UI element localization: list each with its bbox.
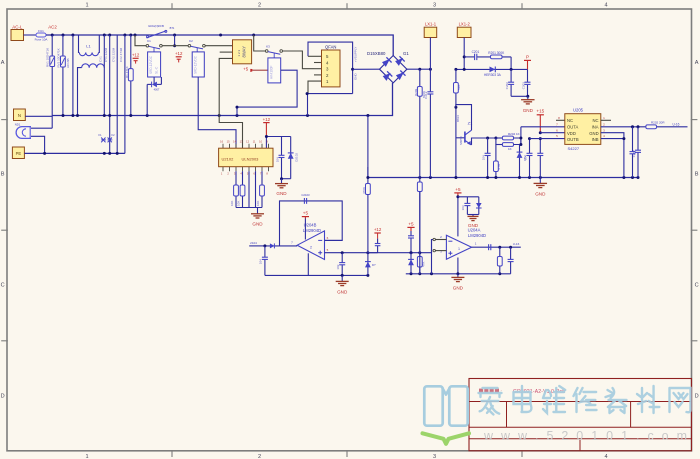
svg-text:D: D	[1, 394, 5, 400]
U2102 pin stubs	[223, 144, 269, 172]
capacitor C201	[464, 50, 479, 60]
resistor R202 label	[651, 120, 665, 124]
junctions INA nodes	[631, 125, 640, 128]
title block document label	[479, 389, 502, 394]
svg-text:A: A	[1, 60, 5, 66]
junctions PE bus	[43, 152, 119, 155]
title block file name	[513, 389, 565, 395]
wire U204B bottom wire	[265, 274, 368, 276]
svg-text:HER303 3A: HER303 3A	[484, 73, 502, 77]
wire U204A V+ rail	[457, 197, 459, 237]
junction contact row node	[173, 44, 176, 47]
svg-text:S4227: S4227	[568, 146, 580, 151]
U205 pin numbers left	[556, 116, 560, 138]
svg-text:2: 2	[258, 2, 261, 8]
IC U205 part number	[568, 146, 580, 151]
title block	[469, 379, 692, 451]
wire U204B feedback loop	[280, 201, 343, 246]
svg-text:w w w . 5 2 0 1 0 1 . c o m: w w w . 5 2 0 1 0 1 . c o m	[483, 429, 689, 443]
svg-text:AC2: AC2	[48, 25, 57, 30]
diode D203	[476, 197, 482, 215]
capacitor CX2 line	[104, 35, 110, 153]
wire sense divider drop	[367, 116, 369, 178]
wire U205 INA wire	[601, 126, 646, 128]
svg-text:BT1: BT1	[170, 26, 175, 30]
transistor Z1 S8550	[456, 121, 473, 146]
wire U205 OUTA wire	[521, 126, 565, 128]
power +5 relay K3	[243, 67, 252, 72]
wire U204A +in stub	[435, 250, 446, 252]
QFAN supply label	[353, 47, 357, 62]
wire QFAN to N bus	[307, 94, 309, 116]
svg-text:ND1: ND1	[15, 123, 21, 127]
svg-text:U204A: U204A	[468, 228, 481, 233]
relay K1 coil	[148, 52, 161, 77]
diode D1 flyback	[147, 77, 161, 92]
wire U205 OUTB wire	[530, 138, 565, 140]
svg-text:104: 104	[259, 259, 263, 264]
junctions N bus	[62, 114, 370, 117]
wire U2102 com node	[265, 137, 267, 149]
svg-text:GND: GND	[523, 108, 534, 113]
wire AC-L to fuse	[24, 34, 37, 36]
svg-text:QFAN: QFAN	[325, 45, 336, 50]
wire vertical L-N link	[72, 35, 74, 116]
wire QFAN pin4 stub	[314, 62, 322, 64]
power +15	[536, 109, 544, 133]
svg-text:1K: 1K	[508, 147, 512, 151]
wire K3 contact out to QFAN	[283, 51, 315, 69]
svg-text:+5: +5	[303, 211, 309, 216]
ground GND near P	[521, 96, 535, 113]
svg-text:AC-L: AC-L	[12, 24, 23, 29]
wire N box to vertical	[25, 115, 52, 117]
svg-text:4007: 4007	[154, 88, 160, 92]
svg-text:OUTB: OUTB	[567, 137, 579, 142]
junctions output nodes	[498, 246, 512, 249]
resistor R207 label	[422, 262, 426, 267]
junction +5 node	[456, 195, 459, 198]
junction clamp node	[265, 135, 268, 138]
junctions R pair right	[519, 137, 522, 147]
svg-text:OUTA: OUTA	[567, 125, 579, 130]
junctions bridge out	[418, 68, 432, 71]
wire label S8050 net	[456, 115, 460, 122]
svg-text:8WAY: 8WAY	[242, 46, 247, 58]
svg-text:B: B	[695, 172, 699, 178]
svg-text:S8050: S8050	[459, 136, 463, 145]
diode D2104 zener	[365, 253, 371, 276]
wire bridge left input	[353, 68, 380, 70]
resistor R202	[646, 125, 688, 129]
svg-text:104: 104	[523, 155, 527, 160]
svg-text:GND: GND	[535, 192, 546, 197]
relay K2 coil	[192, 52, 204, 77]
connector N label	[18, 113, 21, 118]
svg-text:51K: 51K	[457, 85, 461, 90]
varistor RV1	[46, 35, 55, 128]
svg-text:Fuse 10A: Fuse 10A	[35, 38, 48, 42]
svg-text:10K: 10K	[230, 201, 234, 206]
power +12 sense	[374, 227, 382, 238]
ground GND U204B	[336, 275, 349, 294]
diode D2103 small	[270, 243, 275, 248]
wire OUTA drive	[520, 127, 522, 145]
wire U2102 pin wire plain 2	[255, 171, 257, 207]
wire L bus to contact row	[174, 35, 176, 46]
relay K3 contact	[265, 45, 282, 58]
svg-text:PE: PE	[16, 151, 22, 156]
wire Z1 emitter out	[472, 138, 496, 145]
svg-text:+5: +5	[243, 67, 249, 72]
wire U2102 clamp row	[266, 136, 290, 138]
IC U2102 part number	[242, 157, 260, 162]
capacitor CX4 line	[119, 35, 125, 153]
svg-text:C201: C201	[472, 50, 480, 54]
svg-text:+5: +5	[455, 187, 461, 192]
capacitor C212	[424, 69, 433, 177]
wire U205 VDD wire	[540, 132, 565, 134]
wire QFAN bracket bottom	[306, 93, 352, 95]
resistor R205 label	[508, 147, 512, 151]
ground GND U2102 clamp	[275, 179, 288, 196]
svg-text:INA: INA	[592, 125, 599, 130]
svg-text:4.7K: 4.7K	[497, 164, 501, 170]
wire K3 loop to N bus	[236, 107, 238, 115]
svg-text:1: 1	[85, 2, 88, 8]
power +12 U2102	[263, 117, 271, 136]
diode D202 zener	[517, 145, 528, 178]
capacitor C2102	[275, 137, 284, 179]
wire K3 contact feed	[254, 35, 266, 51]
svg-text:2: 2	[310, 246, 312, 250]
watermark text 520101 site name	[479, 386, 691, 414]
svg-text:U205: U205	[573, 108, 584, 113]
wire U204B - input stub	[325, 239, 343, 241]
U205 pin numbers right	[603, 116, 605, 138]
wire U204B V- pin	[307, 253, 309, 275]
svg-text:INB: INB	[592, 137, 599, 142]
connector LX1-2	[457, 21, 471, 37]
svg-text:K1: K1	[147, 39, 151, 43]
U204A pin circles	[433, 238, 435, 252]
wire U2102 pin wire plain 1	[248, 171, 250, 207]
resistor R2105	[366, 167, 371, 195]
wire K3 coil return loop	[237, 70, 297, 107]
svg-text:P: P	[526, 55, 529, 60]
wire sense divider lower	[367, 195, 369, 253]
U2102 pin numbers	[220, 140, 268, 176]
wire U204B output wire	[265, 245, 297, 247]
power +5 U204A	[454, 187, 461, 197]
wire R210 lower	[419, 192, 421, 274]
wire clamp bottom link	[282, 178, 291, 180]
svg-text:SRD-12VDC: SRD-12VDC	[149, 55, 153, 74]
svg-text:104: 104	[481, 155, 485, 160]
svg-text:U2102: U2102	[222, 157, 235, 162]
capacitor C5 +12 polarized	[132, 53, 140, 64]
wire 8WAY pin3 wire	[219, 58, 242, 148]
spark gap FDG1	[98, 133, 106, 142]
svg-text:1: 1	[85, 454, 88, 459]
junctions +input nodes	[341, 251, 422, 254]
wire QFAN pin1 stub	[308, 81, 322, 94]
watermark url	[483, 429, 689, 443]
svg-text:R202 20R: R202 20R	[651, 120, 665, 124]
svg-text:NC: NC	[593, 118, 599, 123]
diode D2104 label	[372, 263, 376, 267]
svg-text:Z1: Z1	[468, 121, 473, 126]
junctions emitter node	[486, 137, 497, 140]
connector PE	[12, 147, 24, 159]
wire 8WAY pin2 stub	[220, 51, 233, 53]
wire U205 INB wire	[601, 138, 624, 140]
svg-text:C202: C202	[505, 82, 509, 90]
breaker BT1	[146, 24, 175, 38]
wire RC gnd link	[467, 214, 478, 216]
junctions L bus	[51, 34, 256, 37]
op-amp U204A LM2904D	[440, 228, 486, 260]
wire U204A bottom bus	[406, 273, 511, 275]
svg-text:D15XB80: D15XB80	[367, 51, 386, 56]
connector PE label	[16, 151, 22, 156]
svg-text:LM2904D: LM2904D	[468, 233, 486, 238]
diode D2102	[288, 137, 299, 179]
svg-text:CX2 474M: CX2 474M	[119, 47, 123, 62]
svg-text:A: A	[695, 60, 699, 66]
svg-text:+12: +12	[263, 117, 271, 122]
wire K2 coil to U2102 pin	[198, 77, 236, 148]
junction INB node	[622, 137, 625, 140]
svg-text:B: B	[1, 172, 5, 178]
svg-text:D: D	[695, 394, 699, 400]
capacitor C210 series	[489, 244, 491, 250]
wire K1 coil return	[146, 84, 148, 115]
svg-text:D?: D?	[372, 263, 376, 267]
svg-text:G1: G1	[403, 51, 409, 56]
QFAN pin numbers	[326, 54, 329, 84]
svg-text:CY2 222M: CY2 222M	[111, 47, 115, 62]
junctions bottom wire nodes	[341, 274, 370, 277]
capacitor C2105	[336, 253, 345, 276]
svg-text:SRD-12VDC: SRD-12VDC	[194, 55, 198, 74]
svg-text:VDD: VDD	[567, 131, 576, 136]
net label out	[513, 242, 520, 246]
watermark book logo	[423, 386, 470, 444]
svg-text:K3: K3	[266, 45, 270, 49]
wire QFAN pin3 stub	[314, 68, 322, 70]
wire U204A output	[472, 246, 521, 248]
wire R pair left link	[496, 138, 503, 145]
resistor R1 bleeder	[125, 35, 133, 116]
svg-text:10K: 10K	[256, 201, 260, 206]
junctions lower bus	[418, 176, 639, 179]
svg-text:102: 102	[336, 264, 340, 269]
resistor R204 label	[508, 132, 520, 136]
svg-text:R201 300K: R201 300K	[488, 51, 505, 55]
svg-text:B816: B816	[456, 115, 460, 122]
svg-text:N: N	[18, 113, 21, 118]
main lower bus	[368, 177, 638, 179]
junction QFAN right	[351, 68, 354, 71]
power P	[524, 55, 531, 70]
junction output node	[263, 244, 266, 247]
junction LX1-2 tap	[463, 55, 466, 58]
IC U2102 designator	[222, 157, 235, 162]
svg-text:RV1 10D471K: RV1 10D471K	[46, 48, 50, 67]
svg-text:+12: +12	[374, 227, 382, 232]
ground GND RC	[468, 215, 479, 228]
wire U204B + input wire	[325, 240, 434, 253]
IC U205	[565, 114, 601, 145]
spark gap FDG2	[107, 133, 115, 142]
wire lamp bottom terminal	[31, 136, 45, 153]
svg-text:U-16: U-16	[513, 242, 520, 246]
capacitor C6 +12 polarized	[175, 51, 183, 62]
connector 8WAY	[233, 40, 252, 64]
resistor R209 label	[414, 88, 426, 98]
junctions diode row	[454, 68, 512, 71]
svg-text:2104: 2104	[250, 241, 257, 245]
svg-text:C: C	[695, 283, 699, 289]
wire LX1-1 to DC bus	[429, 38, 431, 70]
svg-text:R204 1K: R204 1K	[508, 132, 520, 136]
svg-text:LX1-2: LX1-2	[459, 21, 471, 26]
svg-text:+12: +12	[132, 53, 140, 58]
wire contact feed tap	[135, 35, 146, 46]
svg-text:GND: GND	[337, 289, 348, 294]
svg-text:LX1-1: LX1-1	[425, 21, 437, 26]
svg-text:104: 104	[275, 157, 279, 162]
power +5 U204B	[302, 211, 309, 219]
junction R203 node	[454, 106, 457, 109]
svg-text:470K: 470K	[362, 187, 366, 194]
relay K1 contact	[146, 39, 162, 52]
junction K3 loop	[236, 106, 239, 109]
resistor R204	[496, 136, 514, 140]
svg-text:GND: GND	[589, 131, 598, 136]
wire R pair right link	[514, 138, 521, 145]
capacitor C2106	[375, 239, 381, 253]
svg-text:GND: GND	[276, 191, 287, 196]
wire cap gnd link	[511, 95, 528, 97]
wire U205 NC stub L	[556, 119, 565, 121]
svg-text:+15: +15	[536, 109, 544, 114]
svg-text:L1: L1	[86, 44, 91, 49]
svg-text:D2102: D2102	[294, 153, 298, 162]
wire U205 GND wire	[601, 133, 624, 178]
svg-text:2: 2	[258, 454, 261, 459]
resistor R207	[417, 253, 422, 274]
wire Z1 collector	[456, 105, 472, 131]
svg-text:HK4100F: HK4100F	[270, 65, 274, 79]
wire K1-K2 contact link	[162, 45, 188, 47]
capacitor C208	[461, 197, 470, 215]
wire QFAN pin5 stub	[308, 55, 322, 57]
svg-text:NC: NC	[567, 118, 573, 123]
IC U205 designator	[573, 108, 584, 113]
svg-text:47K: 47K	[422, 262, 426, 267]
svg-text:GND: GND	[453, 286, 464, 291]
svg-text:C2103: C2103	[301, 193, 310, 197]
wire U205 NC stub R	[601, 119, 611, 121]
power +5 ref	[407, 221, 414, 231]
connector QFAN label	[325, 45, 336, 50]
wire snubber corner	[510, 57, 512, 70]
svg-text:GND: GND	[252, 221, 263, 226]
svg-text:GND: GND	[353, 73, 357, 81]
svg-text:C212: C212	[424, 91, 428, 99]
U205 pin labels	[567, 118, 599, 142]
svg-text:4: 4	[604, 2, 607, 8]
wire N neutral bus	[52, 83, 392, 116]
svg-text:+5: +5	[408, 221, 414, 226]
wire +5 to K3 coil	[253, 69, 268, 71]
resistor R208	[497, 247, 502, 274]
svg-text:AC16B: AC16B	[66, 58, 70, 68]
wire lamp top terminal	[31, 127, 52, 129]
svg-text:103: 103	[461, 205, 465, 210]
svg-text:3: 3	[433, 2, 436, 8]
capacitor C206	[537, 139, 543, 178]
svg-text:10K: 10K	[237, 201, 241, 206]
capacitor C2103 feedback	[301, 193, 310, 204]
resistor R2105 label	[362, 187, 366, 194]
wire label near x73	[66, 58, 70, 68]
junction ref node	[410, 251, 413, 254]
svg-text:1 2 3: 1 2 3	[237, 49, 241, 56]
junctions U205 left rail	[528, 131, 542, 140]
net label 2104	[250, 241, 257, 245]
node AC2 label	[48, 25, 57, 30]
svg-text:C203: C203	[521, 82, 525, 90]
svg-text:SL-C: SL-C	[154, 66, 158, 74]
varistor RV2	[56, 35, 65, 116]
connector QFAN	[322, 50, 341, 87]
wire U204B V+ pin	[304, 219, 306, 240]
connector AC-L	[11, 24, 24, 40]
svg-text:C: C	[1, 283, 5, 289]
relay K3 coil	[268, 58, 281, 83]
capacitor C204	[481, 138, 490, 178]
svg-text:RV2 10D471K: RV2 10D471K	[56, 48, 60, 67]
wire QFAN pin2 stub	[314, 74, 322, 76]
ground GND main bus	[534, 178, 548, 197]
net label U-16	[673, 122, 680, 126]
capacitor CX3 line	[111, 35, 117, 153]
junction gnd link	[526, 95, 529, 98]
resistor R2103	[240, 171, 245, 207]
svg-text:CY1 222M: CY1 222M	[104, 47, 108, 62]
resistor R205	[496, 143, 514, 147]
fuse FU1	[35, 29, 48, 42]
svg-text:1: 1	[458, 247, 460, 251]
wire U204A V- pin	[457, 258, 459, 274]
connector LX1-1	[424, 21, 437, 37]
IC U2102 ULN2003	[219, 148, 273, 167]
wire RC top wire	[458, 196, 479, 198]
capacitor C202	[505, 69, 514, 96]
resistor R201	[478, 51, 511, 59]
junctions U204A bottom nodes	[410, 272, 502, 275]
svg-text:+12: +12	[175, 51, 183, 56]
junction sense node	[366, 176, 369, 179]
wire LX1-2 down	[463, 38, 465, 70]
wire U2102 bottom common	[236, 207, 262, 209]
inductor L1 common-mode choke	[78, 35, 105, 116]
ground GND U2102 bank	[251, 208, 264, 227]
connector N	[14, 109, 26, 121]
